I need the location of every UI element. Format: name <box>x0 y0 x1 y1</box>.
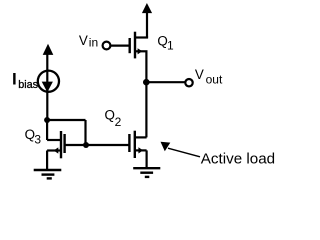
wire: Q3 source down to ground <box>46 151 48 171</box>
label Vin <box>79 33 98 50</box>
node Vout (junction dot) <box>143 79 150 86</box>
wire: Vin terminal to Q1 gate <box>110 44 128 46</box>
svg-text:I: I <box>12 69 17 88</box>
label Q3 <box>25 127 42 147</box>
svg-text:1: 1 <box>167 39 174 53</box>
ground under Q2 <box>133 168 160 177</box>
callout arrow pointing to Q2 (active load) <box>161 142 201 157</box>
svg-text:out: out <box>206 73 223 87</box>
transistor Q1 (NMOS source follower) <box>130 32 148 59</box>
wire: node A down to Q3 drain lead <box>47 120 60 140</box>
power supply arrow (VDD) above Q1 drain <box>142 3 152 38</box>
terminal Vout (open circle) <box>185 79 192 86</box>
label Q1 <box>157 33 174 52</box>
wire: vertical rail Q1 source down to Q2 drain <box>145 51 147 137</box>
wire: mirror node to Q2 gate <box>86 144 129 146</box>
svg-text:in: in <box>89 36 98 50</box>
node A: Ibias / Q3 drain junction dot <box>44 117 50 123</box>
transistor Q2 (NMOS active load) <box>129 131 146 158</box>
svg-text:Active load: Active load <box>201 151 275 168</box>
label Vout <box>195 67 223 87</box>
ground under Q3 <box>34 170 62 178</box>
svg-text:2: 2 <box>115 115 122 129</box>
current source Ibias (circle with downward arrow) <box>38 54 59 120</box>
svg-text:Q: Q <box>105 108 115 123</box>
terminal Vin (open circle) <box>103 42 111 50</box>
svg-text:3: 3 <box>34 133 41 147</box>
label Q2 <box>105 108 122 129</box>
wire: Q1 drain lead to supply <box>136 36 148 38</box>
node B: gate mirror junction dot <box>83 142 89 148</box>
svg-text:V: V <box>79 33 88 48</box>
svg-text:V: V <box>195 67 204 82</box>
wire: Vout node to output terminal <box>146 81 185 83</box>
wire: node A to mirror node (top horizontal + vertical drop) <box>47 120 85 145</box>
label Ibias <box>12 69 39 91</box>
transistor Q3 (diode-connected NMOS, mirrored: gate on right) <box>47 131 86 158</box>
wire: Q2 source down to ground <box>146 150 148 168</box>
power supply arrow (VDD) above Ibias <box>43 44 54 55</box>
svg-text:bias: bias <box>18 79 38 91</box>
